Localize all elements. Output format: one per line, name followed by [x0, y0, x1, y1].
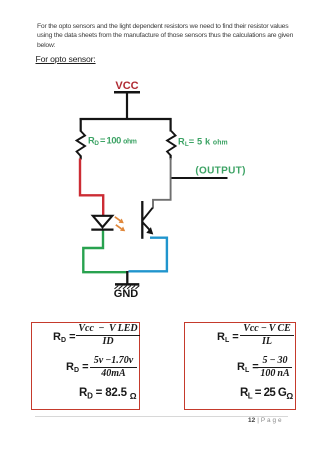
svg-text:RD = 100 ohm: RD = 100 ohm	[88, 135, 137, 147]
svg-text:VCC: VCC	[115, 80, 138, 92]
wire collector gray	[153, 158, 171, 209]
svg-text:RL= 5 k ohm: RL= 5 k ohm	[178, 136, 228, 148]
VCC rail bar	[114, 91, 140, 94]
transistor Q1 collector diagonal	[143, 208, 153, 220]
resistor RL bottom stub	[170, 156, 172, 160]
heading	[36, 54, 96, 64]
ground hatch	[115, 286, 140, 289]
wire top rail	[80, 118, 172, 120]
equation box RL	[184, 322, 296, 410]
page number	[248, 417, 282, 424]
wire cathode green	[83, 230, 126, 273]
transistor Q1 body bar	[141, 201, 143, 239]
RD equation line 1	[53, 332, 76, 343]
wire emitter blue	[129, 238, 167, 272]
paragraph text	[37, 22, 293, 50]
resistor RD	[77, 131, 85, 156]
resistor RD bottom stub	[80, 156, 82, 160]
RL equation line 2	[237, 362, 259, 373]
transistor Q1 emitter arrowhead	[146, 227, 153, 234]
equation box RD	[31, 322, 140, 410]
LED D1 emission arrow 2	[116, 225, 122, 229]
RL equation line 3	[240, 388, 293, 403]
ground bar	[115, 283, 139, 286]
wire VCC stem	[126, 93, 128, 119]
RL equation line 1	[217, 332, 239, 343]
resistor RL	[167, 131, 175, 156]
ground stem	[126, 271, 128, 284]
transistor Q1 emitter diagonal	[143, 223, 152, 232]
svg-text:GND: GND	[114, 288, 139, 300]
LED D1 triangle	[93, 216, 113, 227]
LED D1 emission arrow 1	[115, 217, 120, 221]
footer separator	[35, 416, 288, 417]
wire right branch drop	[170, 118, 172, 132]
wire output tap	[171, 177, 228, 179]
wire left branch drop	[80, 118, 82, 132]
svg-text:(OUTPUT): (OUTPUT)	[195, 165, 245, 176]
RD equation line 2	[66, 362, 89, 373]
wire anode red	[80, 159, 103, 216]
LED D1 cathode bar	[91, 229, 113, 231]
RD equation line 3	[79, 388, 137, 403]
